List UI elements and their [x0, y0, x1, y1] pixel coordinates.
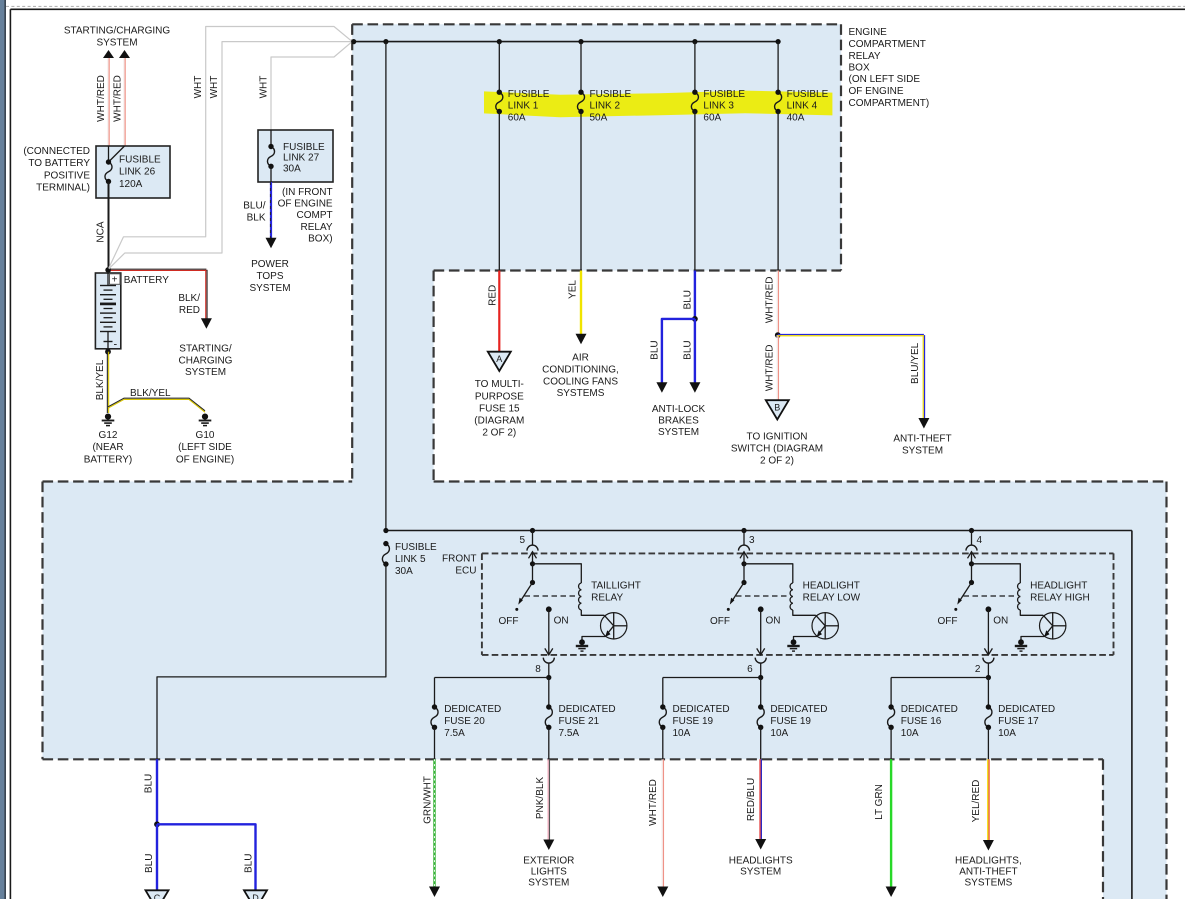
svg-text:RED/BLU: RED/BLU	[746, 778, 757, 821]
svg-text:2 OF 2): 2 OF 2)	[482, 428, 516, 439]
svg-text:BLU: BLU	[649, 340, 660, 359]
svg-text:7.5A: 7.5A	[444, 728, 465, 739]
svg-text:BLK/YEL: BLK/YEL	[130, 388, 171, 399]
svg-text:PURPOSE: PURPOSE	[475, 391, 524, 402]
svg-text:PNK/BLK: PNK/BLK	[535, 777, 546, 820]
svg-text:BLU: BLU	[682, 340, 693, 359]
svg-text:ECU: ECU	[455, 566, 476, 577]
svg-text:POWER: POWER	[251, 259, 289, 270]
svg-text:RELAY LOW: RELAY LOW	[803, 592, 861, 603]
svg-text:FRONT: FRONT	[442, 554, 476, 565]
svg-text:-: -	[114, 339, 118, 351]
svg-text:4: 4	[977, 535, 983, 546]
svg-text:OFF: OFF	[710, 616, 730, 627]
svg-text:ANTI-LOCK: ANTI-LOCK	[652, 404, 706, 415]
svg-text:TAILLIGHT: TAILLIGHT	[591, 580, 641, 591]
svg-text:COMPARTMENT: COMPARTMENT	[849, 39, 926, 50]
svg-text:STARTING/: STARTING/	[179, 344, 232, 355]
svg-text:2: 2	[975, 664, 981, 675]
svg-text:G12: G12	[99, 430, 118, 441]
svg-text:OFF: OFF	[499, 616, 519, 627]
svg-text:+: +	[112, 274, 118, 285]
svg-text:BLK/: BLK/	[178, 293, 200, 304]
svg-text:CHARGING: CHARGING	[179, 355, 233, 366]
svg-text:BOX: BOX	[849, 63, 870, 74]
svg-text:RELAY HIGH: RELAY HIGH	[1030, 592, 1090, 603]
svg-text:FUSIBLE: FUSIBLE	[119, 155, 161, 166]
svg-text:BLU/: BLU/	[243, 201, 265, 212]
svg-text:8: 8	[535, 664, 541, 675]
svg-text:ANTI-THEFT: ANTI-THEFT	[959, 866, 1017, 877]
svg-text:LINK 2: LINK 2	[590, 101, 621, 112]
svg-text:SWITCH (DIAGRAM: SWITCH (DIAGRAM	[731, 444, 823, 455]
svg-text:60A: 60A	[508, 112, 526, 123]
svg-text:COMPT: COMPT	[296, 210, 332, 221]
svg-text:FUSIBLE: FUSIBLE	[787, 89, 829, 100]
svg-text:(IN FRONT: (IN FRONT	[282, 187, 333, 198]
svg-text:OFF: OFF	[938, 616, 958, 627]
svg-text:DEDICATED: DEDICATED	[770, 704, 827, 715]
svg-text:LINK 5: LINK 5	[395, 554, 426, 565]
svg-text:40A: 40A	[787, 112, 805, 123]
svg-text:BLU: BLU	[144, 854, 155, 873]
svg-text:BOX): BOX)	[308, 234, 332, 245]
svg-text:RELAY: RELAY	[301, 222, 333, 233]
svg-text:FUSIBLE: FUSIBLE	[590, 89, 632, 100]
svg-text:SYSTEM: SYSTEM	[528, 878, 569, 889]
svg-text:STARTING/CHARGING: STARTING/CHARGING	[64, 26, 171, 37]
svg-text:60A: 60A	[703, 112, 721, 123]
svg-text:ON: ON	[766, 616, 781, 627]
svg-text:FUSE 15: FUSE 15	[479, 403, 520, 414]
svg-text:SYSTEM: SYSTEM	[185, 367, 226, 378]
svg-text:OF ENGINE: OF ENGINE	[278, 198, 333, 209]
svg-text:30A: 30A	[395, 566, 413, 577]
svg-text:FUSE 19: FUSE 19	[673, 716, 714, 727]
svg-text:WHT/RED: WHT/RED	[96, 75, 107, 122]
svg-text:OF ENGINE): OF ENGINE)	[176, 454, 234, 465]
svg-text:TO IGNITION: TO IGNITION	[747, 432, 808, 443]
svg-text:7.5A: 7.5A	[559, 728, 580, 739]
svg-text:B: B	[774, 403, 780, 413]
svg-text:POSITIVE: POSITIVE	[44, 171, 90, 182]
svg-text:10A: 10A	[770, 728, 788, 739]
svg-text:WHT/RED: WHT/RED	[764, 276, 775, 323]
svg-text:TOPS: TOPS	[256, 271, 283, 282]
svg-text:FUSE 21: FUSE 21	[559, 716, 600, 727]
svg-text:SYSTEMS: SYSTEMS	[557, 388, 605, 399]
svg-text:COMPARTMENT): COMPARTMENT)	[849, 98, 930, 109]
svg-text:FUSIBLE: FUSIBLE	[395, 542, 437, 553]
svg-text:BATTERY: BATTERY	[124, 275, 170, 286]
svg-text:(ON LEFT SIDE: (ON LEFT SIDE	[849, 74, 921, 85]
svg-text:YEL: YEL	[568, 280, 579, 299]
svg-text:WHT: WHT	[193, 76, 204, 99]
svg-text:LINK 26: LINK 26	[119, 167, 156, 178]
svg-text:LINK 27: LINK 27	[283, 153, 320, 164]
svg-text:D: D	[252, 893, 259, 899]
svg-text:30A: 30A	[283, 163, 301, 174]
svg-text:DEDICATED: DEDICATED	[559, 704, 616, 715]
svg-text:RELAY: RELAY	[849, 51, 881, 62]
svg-text:YEL/RED: YEL/RED	[971, 780, 982, 823]
svg-text:DEDICATED: DEDICATED	[998, 704, 1055, 715]
svg-text:HEADLIGHTS,: HEADLIGHTS,	[955, 855, 1022, 866]
svg-text:DEDICATED: DEDICATED	[673, 704, 730, 715]
svg-text:10A: 10A	[998, 728, 1016, 739]
svg-text:ENGINE: ENGINE	[849, 27, 888, 38]
svg-text:WHT: WHT	[259, 76, 270, 99]
svg-text:BLU: BLU	[682, 290, 693, 309]
svg-text:SYSTEM: SYSTEM	[658, 427, 699, 438]
svg-text:G10: G10	[196, 430, 215, 441]
svg-text:NCA: NCA	[96, 221, 107, 242]
svg-text:RELAY: RELAY	[591, 592, 623, 603]
svg-text:WHT: WHT	[209, 76, 220, 99]
svg-text:HEADLIGHT: HEADLIGHT	[1030, 580, 1087, 591]
svg-text:BRAKES: BRAKES	[658, 416, 699, 427]
svg-text:LINK 4: LINK 4	[787, 101, 818, 112]
svg-text:LINK 1: LINK 1	[508, 101, 539, 112]
svg-text:SYSTEM: SYSTEM	[740, 866, 781, 877]
svg-text:6: 6	[747, 664, 753, 675]
svg-text:FUSE 16: FUSE 16	[901, 716, 942, 727]
svg-text:ON: ON	[993, 616, 1008, 627]
svg-text:C: C	[154, 893, 161, 899]
svg-text:SYSTEM: SYSTEM	[902, 445, 943, 456]
svg-text:5: 5	[519, 535, 525, 546]
svg-text:TERMINAL): TERMINAL)	[36, 183, 90, 194]
svg-text:HEADLIGHTS: HEADLIGHTS	[729, 855, 793, 866]
svg-text:BATTERY): BATTERY)	[84, 454, 133, 465]
svg-text:WHT/RED: WHT/RED	[648, 779, 659, 826]
svg-text:120A: 120A	[119, 179, 143, 190]
svg-text:BLK/YEL: BLK/YEL	[95, 359, 106, 400]
svg-text:LT GRN: LT GRN	[874, 784, 885, 820]
svg-text:50A: 50A	[590, 112, 608, 123]
svg-text:BLU: BLU	[144, 774, 155, 793]
svg-text:(DIAGRAM: (DIAGRAM	[474, 416, 524, 427]
svg-text:EXTERIOR: EXTERIOR	[523, 855, 574, 866]
svg-text:BLK: BLK	[247, 212, 266, 223]
svg-text:COOLING FANS: COOLING FANS	[543, 376, 618, 387]
svg-text:SYSTEM: SYSTEM	[249, 283, 290, 294]
svg-text:SYSTEM: SYSTEM	[96, 38, 137, 49]
svg-text:FUSE 20: FUSE 20	[444, 716, 485, 727]
svg-text:(LEFT SIDE: (LEFT SIDE	[178, 442, 232, 453]
svg-text:OF ENGINE: OF ENGINE	[849, 86, 904, 97]
svg-text:FUSE 17: FUSE 17	[998, 716, 1039, 727]
svg-text:DEDICATED: DEDICATED	[901, 704, 958, 715]
svg-text:RED: RED	[179, 305, 200, 316]
svg-text:LIGHTS: LIGHTS	[531, 866, 567, 877]
svg-text:A: A	[496, 354, 502, 364]
svg-text:ON: ON	[554, 616, 569, 627]
svg-text:FUSE 19: FUSE 19	[770, 716, 811, 727]
svg-text:WHT/RED: WHT/RED	[764, 344, 775, 391]
svg-text:(NEAR: (NEAR	[92, 442, 123, 453]
svg-text:FUSIBLE: FUSIBLE	[508, 89, 550, 100]
svg-text:2 OF 2): 2 OF 2)	[760, 456, 794, 467]
svg-text:(CONNECTED: (CONNECTED	[23, 146, 90, 157]
svg-text:3: 3	[749, 535, 755, 546]
svg-text:BLU/YEL: BLU/YEL	[910, 342, 921, 384]
svg-text:FUSIBLE: FUSIBLE	[703, 89, 745, 100]
svg-text:TO BATTERY: TO BATTERY	[28, 158, 90, 169]
svg-text:RED: RED	[488, 285, 499, 306]
svg-text:DEDICATED: DEDICATED	[444, 704, 501, 715]
svg-text:TO MULTI-: TO MULTI-	[475, 379, 524, 390]
svg-text:ANTI-THEFT: ANTI-THEFT	[893, 434, 951, 445]
svg-text:GRN/WHT: GRN/WHT	[423, 776, 434, 824]
svg-text:FUSIBLE: FUSIBLE	[283, 142, 325, 153]
svg-text:WHT/RED: WHT/RED	[113, 75, 124, 122]
svg-text:LINK 3: LINK 3	[703, 101, 734, 112]
svg-text:HEADLIGHT: HEADLIGHT	[803, 580, 860, 591]
svg-text:CONDITIONING,: CONDITIONING,	[542, 364, 619, 375]
svg-text:10A: 10A	[673, 728, 691, 739]
svg-text:BLU: BLU	[243, 854, 254, 873]
svg-text:AIR: AIR	[572, 352, 589, 363]
svg-text:10A: 10A	[901, 728, 919, 739]
svg-text:SYSTEMS: SYSTEMS	[965, 878, 1013, 889]
